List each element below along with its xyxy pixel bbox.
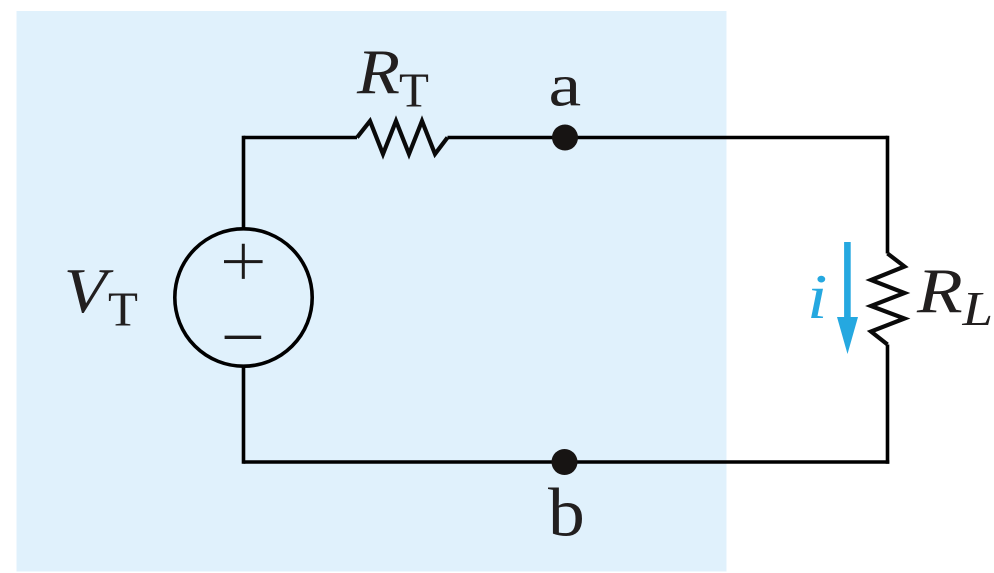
svg-text:V: V bbox=[64, 255, 114, 326]
resistor R_T bbox=[357, 121, 448, 154]
svg-text:b: b bbox=[548, 476, 585, 551]
wire top-right horizontal bbox=[448, 136, 888, 140]
wire top-left horizontal bbox=[244, 136, 358, 140]
wire bottom horizontal bbox=[244, 460, 890, 464]
wire left vertical upper bbox=[242, 136, 246, 229]
svg-text:a: a bbox=[549, 51, 582, 119]
svg-text:T: T bbox=[399, 62, 429, 117]
node b bbox=[552, 449, 578, 475]
plus sign bbox=[224, 244, 263, 279]
svg-text:i: i bbox=[807, 261, 827, 332]
current arrow i bbox=[844, 242, 851, 322]
svg-text:R: R bbox=[356, 36, 400, 107]
resistor R_L bbox=[871, 254, 905, 345]
wire right vertical lower bbox=[886, 345, 890, 464]
shaded thevenin-source region bbox=[17, 11, 727, 572]
wire right vertical upper bbox=[886, 136, 890, 254]
minus sign bbox=[225, 336, 262, 339]
svg-text:R: R bbox=[916, 256, 963, 327]
svg-text:T: T bbox=[108, 282, 138, 337]
node a bbox=[552, 125, 578, 151]
wire left vertical lower bbox=[242, 366, 246, 464]
svg-text:L: L bbox=[961, 283, 993, 337]
voltage source V_T circle bbox=[175, 229, 312, 366]
